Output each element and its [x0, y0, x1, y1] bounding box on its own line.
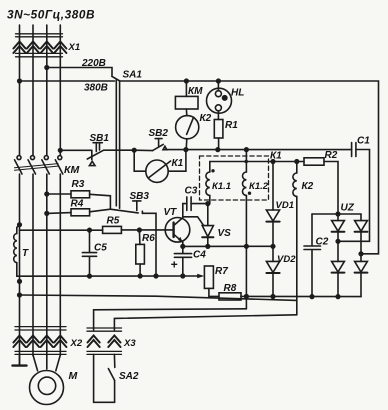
relay K1 dashed box — [200, 156, 269, 200]
node C4 bottom — [181, 274, 185, 278]
node KM top — [185, 79, 189, 83]
switch SA1 — [112, 76, 120, 81]
wire rail B middle — [186, 149, 352, 151]
wire VS gate — [183, 217, 204, 225]
wire X3 left riser — [94, 309, 247, 330]
resistor R4 — [71, 209, 90, 216]
wire double drop left — [115, 80, 117, 206]
svg-text:3N~50Гц,380В: 3N~50Гц,380В — [7, 7, 95, 21]
svg-text:+: + — [171, 258, 178, 272]
node C3 VS K1.1 junction — [206, 202, 210, 206]
svg-text:C1: C1 — [357, 136, 370, 147]
node VD1 VD2 mid — [271, 245, 275, 249]
diode UZ lower left — [332, 261, 345, 296]
wire KM top lead — [185, 81, 187, 96]
node L4 to SB1 — [59, 149, 63, 153]
svg-text:R8: R8 — [224, 283, 237, 294]
svg-text:R6: R6 — [142, 233, 155, 244]
svg-text:C2: C2 — [316, 237, 329, 248]
wire R1 bottom lead — [218, 138, 220, 150]
node VD2 bottom — [271, 295, 275, 299]
resistor R8 — [219, 293, 241, 300]
diode UZ lower right — [355, 261, 368, 296]
node R3 tap on L3 — [45, 192, 49, 196]
svg-text:VD1: VD1 — [276, 200, 294, 211]
capacitor C1 — [352, 143, 370, 157]
node C5 bottom — [88, 274, 92, 278]
pushbutton SB1 — [87, 143, 103, 166]
node K1.2 drop at R8 — [245, 295, 249, 299]
svg-text:М: М — [69, 370, 78, 382]
svg-text:R1: R1 — [225, 120, 238, 131]
connector X1 — [16, 34, 63, 57]
node C5 top junction — [88, 228, 92, 232]
node box stub top — [245, 148, 249, 152]
svg-text:К1: К1 — [172, 158, 184, 169]
node L1 lone dot — [18, 280, 22, 284]
wire R3 left lead — [47, 193, 71, 195]
svg-text:X2: X2 — [70, 338, 83, 349]
motor M — [30, 355, 64, 405]
node W1 start on L1 — [18, 293, 22, 297]
svg-text:HL: HL — [231, 88, 244, 99]
wire phase line L2 lower — [32, 174, 34, 356]
capacitor C2 — [304, 214, 321, 297]
svg-text:X3: X3 — [123, 338, 136, 349]
svg-text:VS: VS — [218, 228, 232, 239]
node C2 bottom — [310, 295, 314, 299]
node R6 bottom — [138, 274, 142, 278]
wire R8 right lead — [241, 295, 246, 297]
resistor R6 — [136, 244, 145, 264]
node 380V tap on L1 — [18, 79, 22, 83]
node UZ left mid — [336, 240, 340, 244]
wire W1 neutral return — [20, 295, 297, 300]
wire phase line L1 top — [19, 25, 21, 155]
svg-text:R3: R3 — [72, 179, 85, 190]
wire bridge bottom rail — [246, 295, 361, 297]
wire UZ top row — [312, 213, 361, 215]
svg-text:SA2: SA2 — [119, 371, 139, 382]
node R1 bottom — [216, 148, 220, 152]
contactor coil KM — [175, 96, 198, 109]
wire HL to R1 — [217, 111, 219, 120]
diode UZ upper left — [332, 214, 345, 261]
svg-text:R7: R7 — [215, 266, 228, 277]
capacitor C4 — [174, 246, 191, 275]
thyristor VS — [202, 204, 213, 247]
connector X2 — [15, 327, 66, 355]
svg-text:SB3: SB3 — [130, 191, 150, 202]
wire ground lead — [19, 355, 21, 365]
wire R3 right lead — [90, 194, 111, 209]
node K2 winding top — [295, 160, 299, 164]
svg-text:VD2: VD2 — [277, 254, 296, 265]
resistor R3 — [71, 191, 90, 198]
wire R6 bottom lead — [139, 264, 141, 276]
svg-text:R2: R2 — [325, 150, 338, 161]
svg-text:UZ: UZ — [341, 203, 355, 214]
svg-text:КМ: КМ — [64, 164, 79, 176]
wire X3 bottom loop — [94, 354, 115, 402]
resistor R2 — [304, 158, 324, 165]
svg-text:380В: 380В — [84, 83, 108, 94]
wire double drop right — [119, 82, 121, 209]
node VS cathode row — [206, 245, 210, 249]
wiper arrow R7 — [197, 274, 204, 278]
node SB2 left — [132, 148, 136, 152]
wire phase line L2 top — [32, 25, 34, 155]
wire phase line L3 lower — [46, 174, 48, 356]
ground — [13, 364, 27, 366]
node R5 R6 junction — [138, 228, 142, 232]
svg-text:C3: C3 — [185, 186, 198, 197]
wire R4 left lead — [47, 212, 71, 215]
svg-text:К1.1: К1.1 — [212, 181, 231, 192]
wire HL top lead — [217, 81, 219, 91]
svg-text:КМ: КМ — [188, 86, 203, 97]
winding K2 — [293, 162, 297, 315]
wire C1 drop to bridge left — [338, 150, 370, 242]
svg-text:Т: Т — [22, 248, 29, 259]
capacitor C5 — [82, 230, 96, 276]
wire K1 windings top bus — [210, 161, 304, 163]
svg-text:220В: 220В — [81, 58, 106, 69]
transformer T winding — [14, 225, 20, 277]
wire phase line L1 lower — [19, 174, 21, 365]
svg-text:SA1: SA1 — [123, 70, 143, 81]
pushbutton SB3 — [110, 201, 142, 214]
resistor R7 — [204, 266, 213, 288]
diode VD2 — [266, 246, 279, 296]
lamp HL — [207, 88, 232, 113]
node UZ top left — [336, 212, 340, 216]
wire 220V — [47, 68, 112, 76]
node SB3 drop bottom — [154, 274, 158, 278]
wire phase line L4 top — [59, 25, 61, 155]
relay contact K2 — [176, 109, 199, 150]
svg-text:C4: C4 — [193, 250, 206, 261]
svg-text:SB2: SB2 — [149, 128, 169, 139]
svg-text:SB1: SB1 — [90, 133, 110, 144]
connector X3 — [87, 328, 122, 354]
wire emitter row — [183, 245, 273, 247]
wire node to SB2 — [134, 149, 152, 151]
diode UZ upper right — [355, 214, 368, 261]
wire phase line L3 top — [46, 25, 48, 155]
svg-text:К2: К2 — [200, 113, 212, 124]
node K1.2 drop row — [245, 245, 249, 249]
resistor R1 — [214, 120, 223, 139]
wire K1.2 drop to X3 wire — [245, 246, 247, 308]
svg-text:К2: К2 — [302, 181, 314, 192]
wire R7 bottom bend — [209, 288, 219, 296]
node 220V tap on L3 — [45, 66, 49, 70]
node T tap on L1 — [18, 223, 22, 227]
svg-text:R4: R4 — [71, 199, 84, 210]
contactor KM main contacts — [15, 156, 63, 174]
svg-text:R5: R5 — [107, 216, 120, 227]
node UZ left bottom — [336, 295, 340, 299]
winding K1.2 — [242, 150, 251, 247]
capacitor C3 — [183, 197, 208, 211]
node K2-KM junction — [184, 148, 188, 152]
wire SB2 to rail B — [167, 149, 186, 151]
wire R5 feed from L1 — [20, 229, 103, 231]
wire SB1 to node — [104, 149, 135, 151]
node VD1 top — [271, 160, 275, 164]
switch SA2 — [108, 354, 114, 402]
svg-text:К1.2: К1.2 — [249, 181, 269, 192]
node VT emitter row — [181, 245, 185, 249]
wire phase line L4 lower — [59, 174, 61, 356]
winding K1.1 — [206, 162, 215, 204]
transistor VT — [165, 204, 190, 247]
wire SB3 right to drop — [142, 213, 156, 275]
node R4 tap on L3 — [45, 212, 49, 216]
wire R2 right to bridge — [324, 162, 338, 215]
svg-text:X1: X1 — [68, 42, 81, 53]
node HL top — [217, 79, 221, 83]
diode VD1 — [266, 162, 279, 247]
svg-text:C5: C5 — [94, 243, 107, 254]
wire X3 right riser — [114, 315, 296, 330]
svg-text:VT: VT — [164, 207, 178, 218]
pushbutton SB2 — [153, 139, 167, 151]
wire L4 to SB1 — [60, 149, 92, 151]
wire R5 right to VT base — [121, 229, 173, 231]
wire R6 top lead — [138, 230, 141, 244]
wire common rail T row — [17, 275, 198, 277]
wire R4 right lead — [90, 209, 111, 212]
node UZ right mid — [359, 252, 363, 256]
wire rail A top — [120, 81, 379, 254]
wire 380V — [20, 80, 115, 82]
relay contact K1 — [134, 150, 186, 183]
resistor R5 — [103, 226, 122, 233]
